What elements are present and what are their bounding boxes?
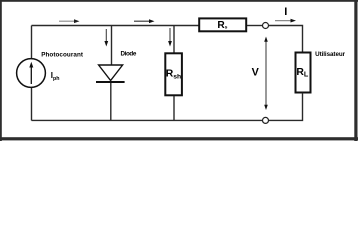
svg-text:Photocourant: Photocourant [41, 52, 84, 59]
terminal node: positive output [263, 23, 269, 29]
arrow: output current I [275, 19, 296, 23]
svg-text:Utilisateur: Utilisateur [315, 51, 346, 58]
arrow: diode branch current [104, 29, 108, 47]
arrow: shunt branch current [168, 28, 172, 47]
svg-text:Diode: Diode [121, 50, 137, 57]
voltage arrow V [264, 37, 268, 111]
wire: shunt branch top [173, 26, 175, 53]
terminal node: negative output [263, 117, 269, 123]
arrow: photocurrent direction on top rail [59, 19, 80, 23]
svg-text:V: V [252, 66, 260, 78]
wire: right rail bottom [269, 93, 303, 121]
wire: left rail [31, 26, 33, 121]
resistor Rsh [165, 53, 182, 95]
current source I_ph [17, 59, 46, 88]
diode D [96, 65, 125, 82]
wire: diode branch top [111, 26, 113, 66]
resistor RL [296, 53, 311, 93]
arrow: current on top rail after shunt node [134, 19, 155, 23]
wire: diode branch bottom [110, 83, 112, 121]
wire: top rail from photocurrent source to Rs [32, 25, 199, 27]
wire: right rail top [269, 26, 303, 52]
svg-text:RL: RL [296, 67, 309, 79]
wire: shunt branch bottom [173, 96, 175, 121]
wire: Rs to positive terminal [247, 25, 263, 27]
svg-text:I: I [284, 6, 287, 18]
wire: bottom rail [32, 119, 263, 121]
resistor Rs [199, 18, 246, 31]
